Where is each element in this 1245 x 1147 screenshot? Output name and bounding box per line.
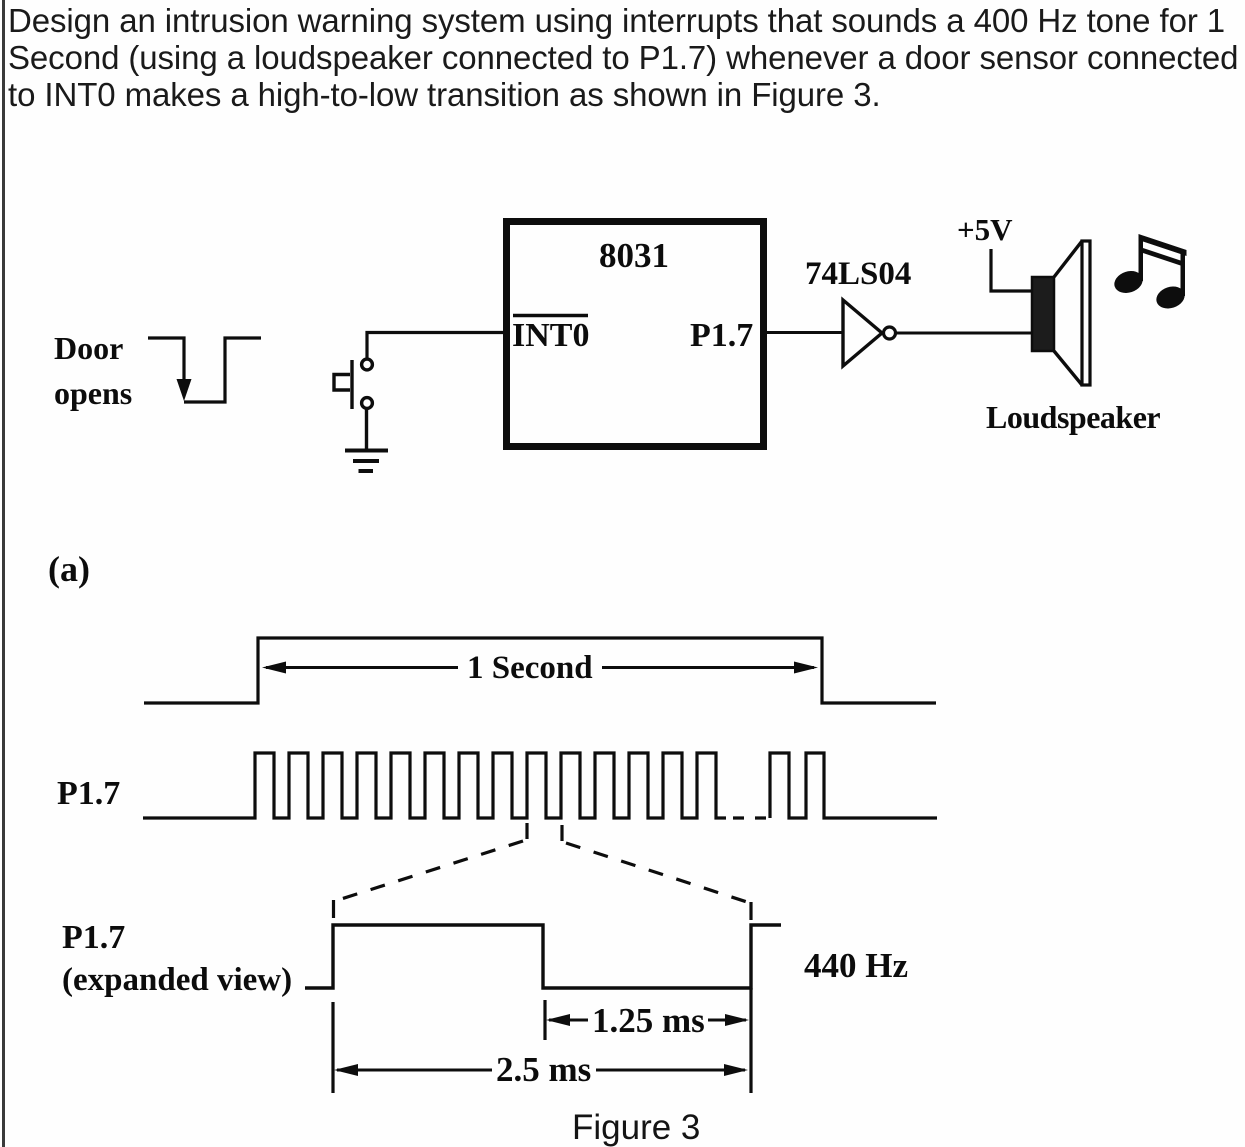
svg-text:+5V: +5V: [957, 212, 1013, 247]
dimension arrow "1 Second": [266, 666, 814, 669]
loudspeaker: [1032, 241, 1090, 385]
wire: P1.7 pin to inverter input: [764, 331, 843, 334]
problem statement text: [8, 2, 1245, 113]
1-second envelope waveform: [144, 638, 936, 703]
svg-text:1 Second: 1 Second: [467, 650, 593, 686]
music notes icon: [1111, 234, 1187, 312]
push-button switch: [334, 359, 372, 409]
door signal waveform (high-to-low pulse): [148, 338, 261, 402]
svg-text:INT0: INT0: [512, 317, 589, 354]
svg-text:opens: opens: [54, 375, 132, 411]
dashed zoom lines to expanded view: [334, 823, 752, 920]
svg-text:P1.7: P1.7: [57, 775, 120, 812]
svg-text:Door: Door: [54, 330, 123, 366]
svg-text:1.25 ms: 1.25 ms: [592, 1001, 705, 1040]
falling-edge arrowhead: [177, 379, 192, 401]
svg-text:P1.7: P1.7: [62, 919, 125, 956]
pin label INT0 (active-low): [512, 316, 589, 355]
svg-text:Loudspeaker: Loudspeaker: [986, 399, 1160, 435]
wire: switch top terminal to INT0 pin of 8031: [367, 333, 504, 359]
svg-text:Figure 3: Figure 3: [572, 1108, 700, 1147]
wire: inverter output to loudspeaker: [896, 332, 1032, 335]
svg-text:2.5 ms: 2.5 ms: [496, 1050, 591, 1089]
signal label P1.7 (expanded view): [62, 919, 292, 998]
wire: +5V to loudspeaker: [991, 249, 1032, 291]
svg-text:(expanded view): (expanded view): [62, 962, 292, 998]
dimension arrow "1.25 ms": [549, 1019, 746, 1022]
svg-text:(a): (a): [48, 549, 90, 589]
P1.7 expanded waveform: [305, 925, 781, 988]
wire: switch bottom terminal to ground: [365, 409, 368, 450]
dimension arrow "2.5 ms": [337, 1069, 745, 1072]
microcontroller U1 8031 box: [507, 222, 764, 447]
dimension tick marks: [333, 988, 751, 1093]
svg-text:P1.7: P1.7: [690, 317, 753, 354]
P1.7 tone-burst waveform: [143, 753, 937, 818]
svg-text:440 Hz: 440 Hz: [804, 946, 908, 985]
inverter U2 74LS04: [843, 300, 896, 366]
svg-text:8031: 8031: [599, 236, 669, 275]
svg-text:74LS04: 74LS04: [805, 256, 911, 292]
ground: [345, 451, 388, 472]
signal label "Door opens": [54, 330, 132, 411]
